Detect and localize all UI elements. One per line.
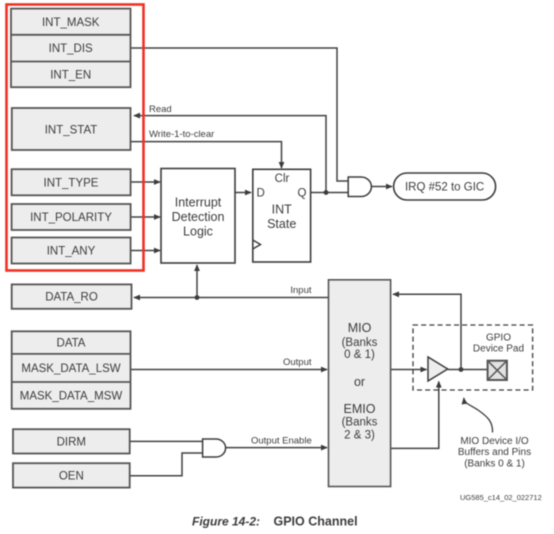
svg-text:Detection: Detection (172, 210, 225, 224)
svg-text:MASK_DATA_LSW: MASK_DATA_LSW (21, 363, 120, 375)
svg-text:EMIO: EMIO (344, 402, 376, 416)
svg-text:INT_POLARITY: INT_POLARITY (30, 212, 112, 224)
svg-text:INT_TYPE: INT_TYPE (44, 177, 99, 189)
wire output-enable riser to buffer (391, 382, 439, 449)
svg-text:2 & 3): 2 & 3) (344, 430, 375, 442)
dashed boundary MIO buffers (413, 325, 533, 390)
svg-text:or: or (354, 375, 365, 389)
svg-text:GPIO Channel: GPIO Channel (274, 515, 358, 529)
svg-text:Logic: Logic (183, 225, 213, 239)
red highlight rectangle (7, 5, 144, 271)
wire AND1 output to IRQ (372, 186, 393, 188)
register INT_MASK / INT_DIS / INT_EN stack (11, 9, 131, 88)
svg-text:DATA_RO: DATA_RO (45, 292, 98, 304)
wire MIO to buffer input (391, 369, 427, 371)
svg-text:INT_ANY: INT_ANY (47, 246, 96, 258)
register DATA / MASK_DATA_LSW / MASK_DATA_MSW stack (12, 331, 131, 409)
svg-text:Clr: Clr (275, 173, 290, 185)
svg-text:Input: Input (290, 285, 311, 296)
wire INT_ANY to IDL (131, 250, 161, 252)
wire OEN to AND2 bottom input (130, 453, 202, 476)
wire Read (from Q junction riser to INT_STAT) (134, 116, 326, 193)
svg-text:DIRM: DIRM (57, 436, 86, 448)
svg-text:0 & 1): 0 & 1) (344, 349, 375, 361)
wire INT_TYPE to IDL (131, 181, 161, 183)
register INT_STAT (12, 108, 131, 150)
wire pad feedback to MIO input (393, 294, 461, 369)
svg-text:DATA: DATA (57, 338, 86, 350)
buffer tri-state driver (428, 357, 448, 381)
svg-text:State: State (267, 217, 296, 231)
register DATA_RO (12, 284, 132, 308)
register INT_TYPE (12, 169, 131, 195)
register INT_POLARITY (12, 204, 131, 230)
pad I/O pad symbol (488, 361, 507, 380)
wire INT_POLARITY to IDL (131, 216, 161, 218)
svg-text:MASK_DATA_MSW: MASK_DATA_MSW (20, 391, 123, 403)
clock input chevron (253, 240, 261, 249)
node IRQ #52 to GIC (394, 173, 496, 200)
svg-text:MIO: MIO (348, 321, 372, 335)
junction Q node (324, 190, 329, 195)
junction input node (195, 295, 200, 300)
leader curve to buffers label (464, 398, 493, 433)
flip-flop INT State U1 (253, 169, 311, 262)
wire riser to IDL bottom (196, 265, 198, 298)
svg-text:Device Pad: Device Pad (473, 344, 524, 355)
svg-text:INT_DIS: INT_DIS (49, 43, 93, 55)
svg-text:Buffers and Pins: Buffers and Pins (458, 447, 531, 458)
svg-text:(Banks: (Banks (342, 417, 378, 429)
svg-text:Figure 14-2:: Figure 14-2: (192, 515, 260, 529)
svg-text:UG585_c14_02_022712: UG585_c14_02_022712 (460, 493, 542, 502)
wire Input (MIO to DATA_RO) (134, 297, 329, 299)
svg-text:GPIO: GPIO (486, 333, 511, 344)
svg-text:(Banks: (Banks (342, 337, 378, 349)
svg-text:Q: Q (298, 188, 307, 200)
junction pad node (459, 367, 464, 372)
svg-text:(Banks 0 & 1): (Banks 0 & 1) (464, 459, 525, 470)
block Interrupt Detection Logic (161, 169, 235, 264)
svg-text:INT: INT (272, 203, 293, 217)
svg-text:MIO Device I/O: MIO Device I/O (460, 436, 529, 447)
svg-text:INT_MASK: INT_MASK (42, 17, 100, 29)
svg-text:INT_EN: INT_EN (50, 70, 91, 82)
block MIO / EMIO (329, 280, 391, 487)
register OEN (13, 463, 130, 487)
wire buffer output to pad (448, 369, 488, 371)
wire INT_DIS to AND1 top input (131, 48, 348, 181)
AND gate G2 (output enable) (203, 439, 226, 457)
svg-text:Output Enable: Output Enable (251, 436, 312, 447)
svg-text:INT_STAT: INT_STAT (45, 125, 98, 137)
svg-text:IRQ #52 to GIC: IRQ #52 to GIC (405, 182, 484, 194)
register DIRM (13, 429, 130, 453)
svg-text:D: D (257, 188, 265, 200)
wire FF Q to AND1 bottom input (311, 192, 348, 194)
wire IDL output to FF D input (235, 192, 251, 194)
wire Output (MASK_DATA_LSW to MIO) (131, 369, 328, 371)
wire DIRM to AND2 top input (130, 440, 202, 442)
svg-text:Output: Output (283, 357, 312, 368)
wire Output Enable (AND2 to MIO) (226, 447, 327, 449)
svg-text:OEN: OEN (59, 470, 84, 482)
wire Write-1-to-clear (INT_STAT to FF Clr) (131, 142, 282, 168)
register INT_ANY (12, 238, 131, 264)
svg-text:Interrupt: Interrupt (175, 196, 222, 210)
AND gate G1 (interrupt enable) (348, 177, 371, 197)
svg-text:Read: Read (149, 104, 172, 115)
svg-text:Write-1-to-clear: Write-1-to-clear (149, 129, 214, 140)
